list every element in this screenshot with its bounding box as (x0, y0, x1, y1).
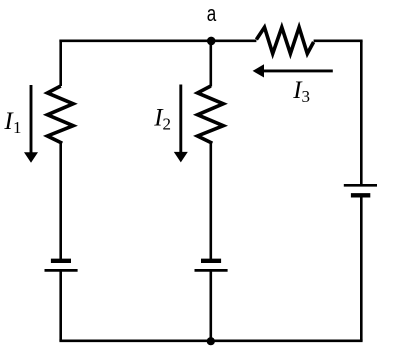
svg-text:a: a (207, 1, 217, 26)
svg-text:2: 2 (163, 115, 172, 134)
svg-text:3: 3 (302, 87, 311, 106)
svg-text:1: 1 (13, 118, 22, 137)
